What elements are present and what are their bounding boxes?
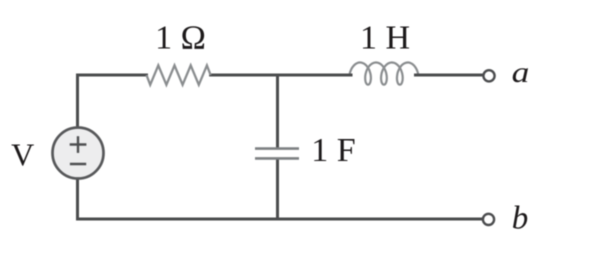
svg-text:1 H: 1 H	[360, 20, 410, 57]
svg-text:b: b	[512, 200, 529, 236]
svg-text:V: V	[11, 137, 34, 173]
svg-text:1 F: 1 F	[311, 132, 355, 169]
svg-text:1 Ω: 1 Ω	[155, 20, 206, 57]
svg-text:a: a	[512, 56, 530, 89]
